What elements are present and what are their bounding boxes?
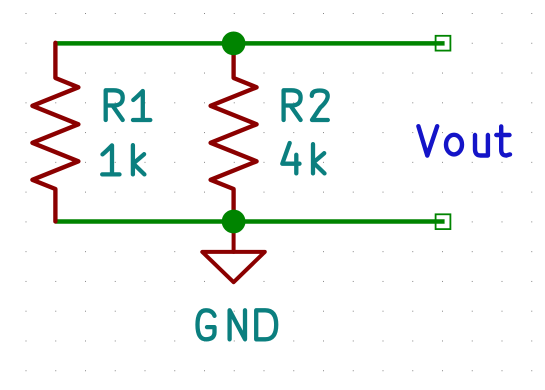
resistor R2 (211, 44, 257, 222)
label R2 value 4k (282, 143, 324, 173)
label R1 value 1k (102, 145, 144, 174)
unconnected end square top (436, 36, 451, 51)
wire bottom net GND (55, 219, 444, 224)
wire top net Vout (55, 41, 444, 46)
net label Vout (418, 126, 510, 155)
unconnected end square bottom (436, 214, 451, 229)
ground symbol (202, 222, 264, 282)
resistor R1 (32, 43, 78, 222)
label R2 reference (284, 90, 328, 120)
power label GND (198, 310, 277, 339)
junction node bottom (222, 210, 246, 234)
label R1 reference (106, 90, 151, 120)
junction node top (222, 32, 246, 56)
